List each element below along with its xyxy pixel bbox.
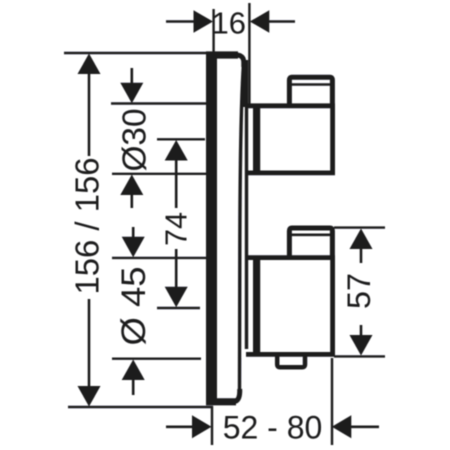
extension line center of upper handle — [157, 138, 205, 140]
extension line bottom plate level — [68, 406, 213, 408]
dimension 57 line upper segment — [360, 248, 363, 263]
dimension 156/156 top arrow — [78, 54, 101, 75]
dimension 52-80 left tail — [166, 425, 194, 428]
plate front outer edge — [240, 62, 244, 392]
extension line 52-80 right vertical — [331, 358, 333, 445]
bottom handle body — [246, 258, 333, 355]
extension line center of lower handle — [157, 307, 200, 309]
dimension 52-80 left arrow — [192, 415, 212, 438]
dimension Ø30 top tail — [131, 68, 134, 84]
plate back edge (wall side) — [206, 52, 217, 405]
extension line top of lower cap right — [334, 226, 385, 228]
plate top edge — [206, 51, 238, 58]
dimension 74 bottom arrow — [165, 287, 188, 308]
bottom handle joint line — [253, 257, 260, 357]
plate bottom-right corner — [234, 389, 240, 402]
extension line bottom of upper handle — [112, 173, 207, 175]
plate top-right corner — [237, 55, 244, 67]
dimension 16 right tail — [269, 20, 295, 23]
svg-text:Ø 45: Ø 45 — [115, 267, 153, 346]
top handle cap chamfer line — [292, 83, 331, 86]
dimension 156/156 line lower segment — [88, 299, 91, 388]
extension line bottom of lower handle — [112, 358, 201, 360]
dimension 74 line upper segment — [175, 159, 178, 208]
dimension Ø30 bottom arrow — [120, 175, 143, 196]
svg-text:16: 16 — [211, 6, 245, 41]
dimension 16 right arrow — [250, 10, 269, 32]
extension line 52-80 left vertical — [211, 406, 213, 445]
plate front inner contour — [245, 104, 248, 349]
top handle cap — [289, 77, 332, 104]
bottom handle cap — [289, 228, 332, 256]
dimension 16 left arrow — [194, 10, 214, 32]
svg-text:74: 74 — [159, 212, 194, 246]
plate bottom edge — [206, 398, 236, 405]
dimension 57 line lower segment — [360, 325, 363, 336]
eco-stop nub below bottom handle — [277, 356, 305, 367]
svg-text:57: 57 — [341, 273, 377, 309]
dimension 57 bottom arrow — [350, 335, 373, 356]
dimension 156/156 line upper segment — [88, 73, 91, 156]
extension line 16 left vertical — [212, 9, 214, 52]
dimension 52-80 right tail — [351, 425, 379, 428]
plate front edge merged top section — [242, 60, 248, 107]
dimension 74 line lower segment — [175, 249, 178, 289]
extension line bottom of lower handle right — [334, 355, 385, 357]
dimension 57 top arrow — [350, 229, 373, 250]
svg-text:156 / 156: 156 / 156 — [69, 158, 106, 295]
svg-text:Ø30: Ø30 — [116, 109, 153, 172]
dimension Ø30 top arrow — [120, 83, 143, 104]
dimension 74 top arrow — [165, 140, 188, 161]
dimension 16 left tail — [166, 20, 194, 23]
top handle joint line — [253, 105, 260, 175]
top handle body — [246, 106, 333, 173]
extension line top plate level — [64, 52, 207, 54]
dimension Ø30 bottom tail — [131, 194, 134, 208]
extension line top of lower handle body — [112, 257, 206, 259]
extension line 16 right vertical — [248, 3, 250, 104]
dimension Ø45 top tail — [132, 227, 135, 239]
svg-text:52 - 80: 52 - 80 — [223, 409, 323, 445]
extension line top of upper handle — [111, 102, 207, 104]
dimension Ø45 bottom tail — [132, 379, 135, 395]
dimension 156/156 bottom arrow — [78, 386, 101, 407]
bottom handle cap chamfer line — [292, 234, 331, 237]
dimension Ø45 top arrow — [122, 237, 145, 257]
dimension Ø45 bottom arrow — [122, 360, 145, 381]
dimension 52-80 right arrow — [332, 415, 352, 438]
